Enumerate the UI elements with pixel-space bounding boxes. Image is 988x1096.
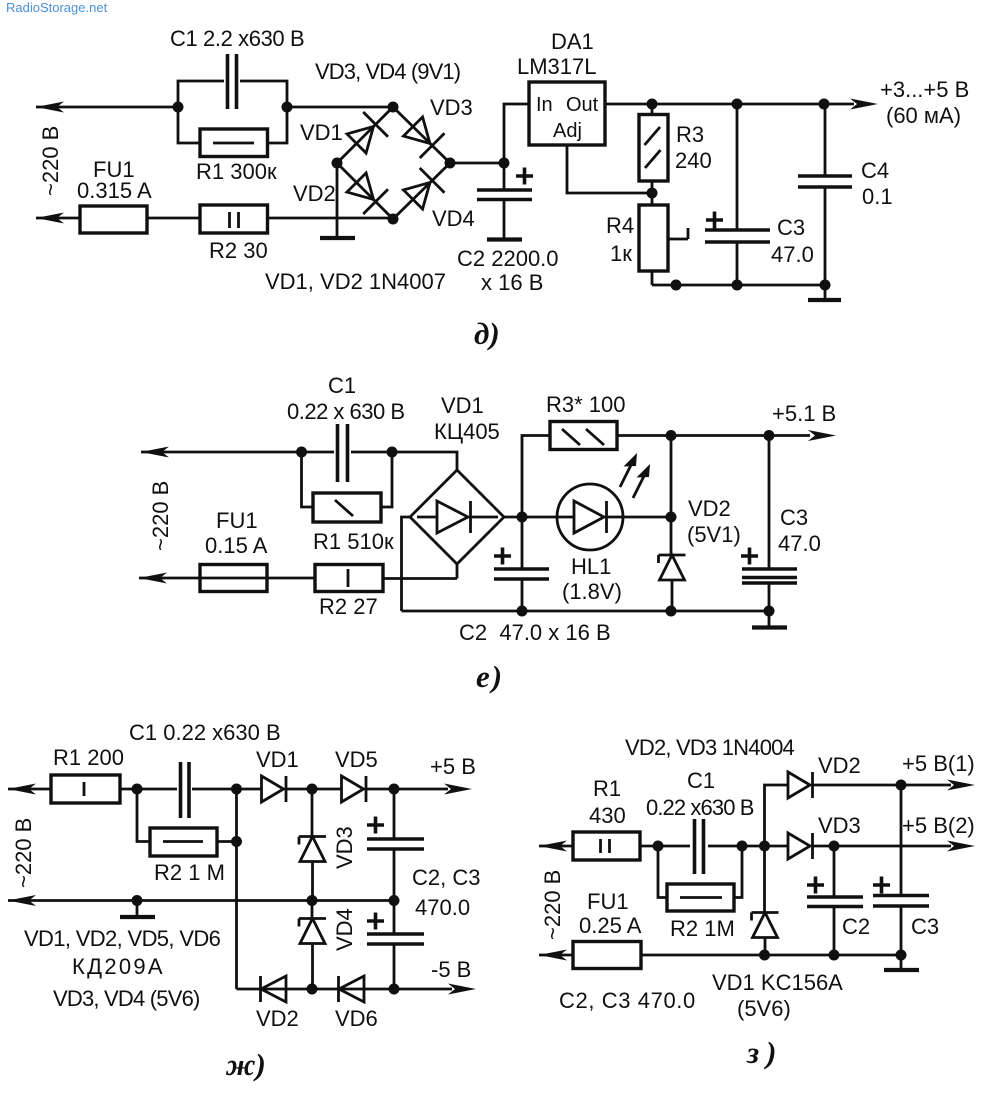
node bridge right [445,158,456,169]
node branch z [759,841,770,852]
capacitor C3 electrolytic [705,104,770,285]
svg-text:R2 30: R2 30 [209,238,268,263]
wire bridge left to ground [336,163,339,237]
diode VD4 [401,168,445,212]
ground z [884,955,919,970]
svg-text:C3: C3 [911,914,939,939]
zener VD1 z [752,846,779,955]
svg-text:VD2, VD3 1N4004: VD2, VD3 1N4004 [625,735,795,760]
svg-text:(5V6): (5V6) [737,996,791,1021]
wire top AC rail left [36,106,178,109]
svg-text:~220 В: ~220 В [11,818,36,888]
arrow right plus5-1 z [947,780,975,791]
svg-text:47.0: 47.0 [771,242,814,267]
diode VD2 zh left-pointing [261,976,287,1002]
svg-text:R1: R1 [593,776,621,801]
svg-text:R2 1M: R2 1M [670,916,735,941]
svg-text:C1 0.22 x630 В: C1 0.22 x630 В [129,720,281,745]
svg-text:Out: Out [566,94,599,116]
fuse FU1 [80,206,147,233]
node R2 right zh [231,836,242,847]
svg-text:C2 2200.0: C2 2200.0 [457,246,559,271]
svg-text:+5 В(1): +5 В(1) [902,751,975,776]
plus sign C3 e [741,548,758,565]
arrow left middle zh [8,895,36,906]
arrow left top AC [36,102,64,113]
svg-text:+3...+5 В: +3...+5 В [880,77,969,102]
svg-text:C4: C4 [861,158,889,183]
svg-text:КД209А: КД209А [72,954,165,979]
svg-text:VD5: VD5 [335,747,378,772]
node bridge top [388,102,399,113]
wire top AC rail left [141,451,302,454]
svg-text:(60 мА): (60 мА) [886,103,961,128]
wire output rail e [671,434,810,437]
resistor R2 27 [267,565,383,592]
capacitor C3 electrolytic e [742,436,797,612]
svg-text:C3: C3 [780,505,808,530]
svg-text:ж): ж) [225,1047,266,1082]
node C2 bottom e [517,606,528,617]
wire bottom rail zh [237,988,453,991]
node adj junction [647,188,658,199]
svg-text:+5 В(2): +5 В(2) [902,813,975,838]
svg-text:0.1: 0.1 [862,184,893,209]
node middle C2 [389,895,400,906]
capacitor C2 electrolytic zh [367,789,424,901]
node C3 top e [764,430,775,441]
diode VD2 z [788,772,951,798]
wire rail to C1 z [658,845,742,848]
wire bottom AC rail [36,217,200,220]
arrow right plus5 zh [444,784,472,795]
node C4 top [819,99,830,110]
svg-text:+5.1 В: +5.1 В [772,401,836,426]
arrow left bottom AC e [139,573,167,584]
wire VD2 node vertical [670,436,673,518]
arrow right minus5 zh [448,984,476,995]
node junction left of C1 [173,102,184,113]
node junction right of C1 [282,102,293,113]
fuse FU1 e [200,565,267,592]
capacitor C1 z [695,819,704,874]
wire to plus arrow zh [394,788,448,791]
diode VD3 [401,114,445,158]
plus sign C2 zh [367,817,384,834]
capacitor C2 electrolytic e [494,517,549,611]
svg-text:0.22 x630 В: 0.22 x630 В [646,795,754,820]
zener VD4 zh [299,901,326,990]
resistor R1 510k with leads [302,452,393,522]
diode VD6 left-pointing [339,976,365,1002]
node VD3 out z [829,841,840,852]
node bridge left [332,158,343,169]
node after C1 z [737,841,748,852]
capacitor C2 electrolytic z [807,846,863,955]
svg-text:0.15 A: 0.15 A [205,533,268,558]
wire top AC to bridge top [392,452,457,470]
resistor R3 240 [639,104,668,193]
wire bottom AC to bridge [268,217,394,220]
wire main rail to arrow z [834,845,951,848]
node ground middle zh [132,895,143,906]
zener VD2 e [659,517,686,611]
arrow right output e [808,430,836,441]
svg-text:R2 27: R2 27 [319,594,378,619]
node bridge bottom [388,214,399,225]
node C4 bottom [820,280,831,291]
node left of C1 e [296,447,307,458]
plus sign C2 [516,168,533,185]
svg-text:R1 300к: R1 300к [196,159,277,184]
node C3 bottom z [896,950,907,961]
capacitor C1 e [338,424,348,482]
svg-text:VD2: VD2 [688,496,731,521]
wire R2 to bridge bottom [383,564,457,579]
wire LED to VD2 node [623,516,671,519]
svg-text:C2, C3 470.0: C2, C3 470.0 [559,988,696,1013]
wire to branch node z [742,845,765,848]
ground C2 [487,237,522,241]
diode VD1 zh [237,776,313,802]
arrow left top AC e [141,447,169,458]
svg-text:R1 200: R1 200 [53,745,124,770]
wire rail to C1 zh [137,788,237,791]
svg-text:C2, C3: C2, C3 [412,865,480,890]
svg-text:x 16 В: x 16 В [481,270,543,295]
node VD2 top e [666,430,677,441]
svg-text:430: 430 [589,803,626,828]
svg-text:VD6: VD6 [335,1006,378,1031]
svg-text:~220 В: ~220 В [148,481,173,551]
bridge rectifier diamond [337,107,450,219]
svg-text:RadioStorage.net: RadioStorage.net [6,0,108,15]
plus sign C2 z [807,877,824,894]
node VD2 bottom e [666,606,677,617]
svg-text:VD4: VD4 [432,206,475,231]
plus sign C3 [706,212,723,229]
wire middle rail zh [8,899,394,902]
arrow left top zh [8,784,36,795]
svg-text:R4: R4 [606,213,634,238]
svg-text:VD1 KC156A: VD1 KC156A [712,970,843,995]
capacitor C2 electrolytic [477,163,532,238]
svg-text:VD3, VD4 (5V6): VD3, VD4 (5V6) [53,986,200,1011]
LED arrows [620,453,650,498]
wire bottom output rail [652,284,825,287]
node C3 bottom e [764,606,775,617]
ground e [752,611,787,628]
svg-text:R3* 100: R3* 100 [546,392,626,417]
svg-text:(5V1): (5V1) [687,522,741,547]
wire LED line left [522,516,557,519]
wire bridge left to minus rail [402,517,411,611]
node top rail at column zh [231,784,242,795]
svg-text:R2 1 M: R2 1 M [154,860,225,885]
wire bridge out to C2 node [450,162,504,165]
svg-text:R3: R3 [676,122,704,147]
capacitor C1 zh [181,762,190,818]
svg-text:470.0: 470.0 [415,895,470,920]
resistor R1 300k [200,129,268,157]
svg-text:VD2: VD2 [256,1006,299,1031]
resistor R2 1M with leads [137,789,237,856]
svg-text:47.0: 47.0 [778,531,821,556]
wire bridge right to LED line [504,516,522,519]
node zener bottom z [759,950,770,961]
node R4 bottom [671,280,682,291]
node right of C1 e [387,447,398,458]
svg-text:VD2: VD2 [293,181,336,206]
node middle VD3 [307,895,318,906]
svg-text:+5 В: +5 В [430,754,476,779]
arrow right output [850,99,878,110]
wire up to DA1 In [504,104,529,163]
wire bottom output rail e [402,610,770,613]
svg-text:(1.8V): (1.8V) [562,579,622,604]
wire bottom AC rail e [139,577,200,580]
svg-text:VD1, VD2 1N4007: VD1, VD2 1N4007 [265,269,446,294]
wire VD2 branch up z [765,785,789,846]
LED HL1 [557,484,623,550]
wire rail between dots [302,451,393,454]
svg-text:C3: C3 [777,215,805,240]
svg-text:~220 В: ~220 В [540,870,565,940]
svg-text:з): з) [746,1035,783,1070]
svg-text:VD3: VD3 [818,813,861,838]
diode VD5 [312,776,394,802]
svg-text:VD1: VD1 [256,747,299,772]
wire main rail left z [539,845,573,848]
node C3 bottom [732,280,743,291]
op-amp regulator DA1 box [529,82,605,145]
plus sign C2 e [494,548,511,565]
resistor R1 430 [573,832,658,860]
wire DA1 out rail [605,103,854,106]
node R3 top [647,99,658,110]
node between VD1 VD5 [307,784,318,795]
svg-text:0.22 x 630 В: 0.22 x 630 В [287,399,405,424]
capacitor C4 [798,104,852,285]
svg-text:VD4: VD4 [332,908,357,951]
svg-text:VD3, VD4 (9V1): VD3, VD4 (9V1) [315,59,460,84]
capacitor C3 electrolytic zh [367,901,424,990]
capacitor C1 [228,54,237,109]
svg-text:VD2: VD2 [818,753,861,778]
svg-text:DA1: DA1 [551,29,594,54]
node after R1 z [653,841,664,852]
svg-text:R1 510к: R1 510к [313,529,394,554]
node after VD5 [389,784,400,795]
wire long vertical column zh [235,789,238,989]
svg-text:Adj: Adj [553,120,582,142]
svg-text:FU1: FU1 [216,508,258,533]
svg-text:VD1: VD1 [300,120,343,145]
arrow right plus5-2 z [947,841,975,852]
svg-text:VD3: VD3 [430,95,473,120]
plus sign C3 z [873,877,890,894]
wire C1 upper branch [178,81,287,107]
svg-text:LM317L: LM317L [517,54,597,79]
node bridge out e [517,512,528,523]
svg-text:1к: 1к [610,241,632,266]
wire R3 to output node [617,434,671,437]
svg-text:0.315 A: 0.315 A [77,178,152,203]
svg-text:C2 47.0 x 16 В: C2 47.0 x 16 В [459,620,611,645]
bridge VD1 diamond [410,470,504,564]
svg-text:HL1: HL1 [571,554,611,579]
diode VD2 [344,170,388,214]
node after R1 zh [132,784,143,795]
arrow left main z [539,841,567,852]
resistor R2 1M z with leads [658,846,742,911]
svg-text:VD3: VD3 [332,826,357,869]
svg-text:КЦ405: КЦ405 [434,419,500,444]
node C3 top [732,99,743,110]
svg-text:C2: C2 [842,914,870,939]
wire top AC to bridge [287,106,393,109]
svg-text:е): е) [476,659,504,694]
arrow left bottom z [539,950,567,961]
arrow left bottom AC [36,213,64,224]
diode VD3 z [765,833,835,859]
svg-text:240: 240 [675,148,712,173]
diode VD1 [344,112,388,156]
ground output [808,285,841,300]
svg-text:VD1: VD1 [441,393,484,418]
ground middle zh [120,901,155,918]
svg-text:C1: C1 [687,768,715,793]
resistor R2 30 [200,205,268,233]
wire R1 lower branch [178,107,287,143]
svg-text:д): д) [474,316,500,351]
resistor R3* 100 [550,422,617,450]
svg-text:~220 В: ~220 В [38,126,63,196]
svg-text:-5 В: -5 В [431,957,471,982]
plus sign C3 zh [367,913,384,930]
resistor R4 1k adjustable [639,193,688,285]
resistor R1 200 [51,775,137,803]
node VD2 out z [896,780,907,791]
node C2 bottom z [829,950,840,961]
wire bottom rail z [539,954,905,957]
wire R3 branch up [522,436,550,518]
capacitor C3 electrolytic z [873,785,929,955]
svg-text:In: In [536,94,553,116]
node bottom VD [307,984,318,995]
diode inside bridge VD1 [417,501,498,533]
svg-text:0.25 A: 0.25 A [579,913,642,938]
svg-text:C1: C1 [328,373,356,398]
zener VD3 zh [299,789,326,901]
node LED line VD2 [666,512,677,523]
node C2 top [499,158,510,169]
wire Adj to R3/R4 node [567,145,652,193]
ground bridge [320,236,355,240]
fuse FU1 z [573,942,641,969]
svg-text:C1 2.2 x630 В: C1 2.2 x630 В [170,26,304,51]
node bottom C3 [389,984,400,995]
svg-text:VD1, VD2, VD5, VD6: VD1, VD2, VD5, VD6 [24,926,221,951]
svg-text:FU1: FU1 [587,889,629,914]
wire top rail left zh [8,788,51,791]
